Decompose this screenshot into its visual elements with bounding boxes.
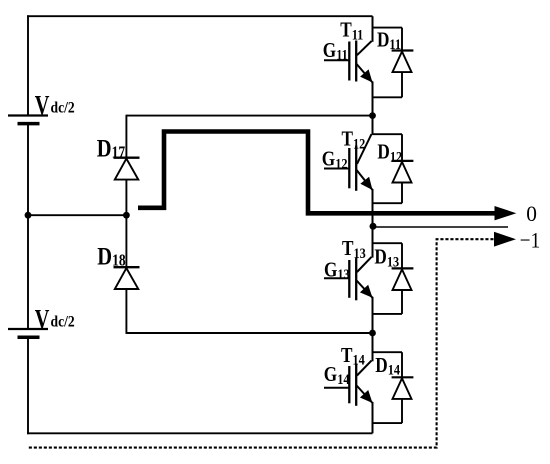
wire output phase line bbox=[373, 226, 508, 228]
label T11 bbox=[340, 19, 363, 43]
battery V1 negative plate bbox=[18, 122, 40, 126]
label D17 bbox=[97, 135, 126, 162]
svg-text:−1: −1 bbox=[520, 227, 540, 253]
svg-text:G13: G13 bbox=[324, 259, 350, 283]
wire left rail lower bbox=[27, 337, 29, 434]
svg-text:dc/2: dc/2 bbox=[51, 314, 75, 331]
wire bottom rail (-Vdc bus) bbox=[27, 432, 373, 434]
diode D11 bbox=[393, 52, 412, 73]
junction node output 0 bbox=[370, 223, 377, 230]
IGBT T11 emitter bbox=[357, 64, 373, 116]
wire neutral rail bbox=[28, 214, 126, 216]
label D14 bbox=[375, 354, 400, 378]
wire D17 cathode to node A bbox=[125, 115, 127, 158]
IGBT T12 gate bar bbox=[348, 148, 350, 188]
wire D18 anode down bbox=[125, 289, 127, 334]
svg-text:D14: D14 bbox=[375, 354, 400, 378]
svg-text:D13: D13 bbox=[374, 246, 399, 270]
diode D13 cathode bar bbox=[392, 267, 414, 269]
diode D12 cathode bar bbox=[392, 160, 414, 162]
output 0 arrowhead bbox=[495, 206, 517, 220]
wire node B horizontal bbox=[126, 332, 372, 334]
IGBT T13 body bar bbox=[355, 258, 357, 301]
junction node T13-T14 midpoint bbox=[369, 330, 376, 337]
diode D17 bbox=[115, 159, 139, 180]
label 0 bbox=[526, 200, 537, 226]
gate G14 lead bbox=[324, 387, 349, 389]
diode D17 cathode bar bbox=[114, 156, 140, 158]
label -1 bbox=[520, 227, 540, 253]
svg-text:T14: T14 bbox=[341, 344, 365, 368]
diode D11 top wire bbox=[373, 28, 403, 51]
diode D13 top wire bbox=[373, 243, 403, 269]
svg-text:G12: G12 bbox=[322, 148, 348, 172]
diode D11 cathode bar bbox=[392, 49, 414, 51]
IGBT T11 gate bar bbox=[348, 42, 350, 81]
label Vdc/2 lower bbox=[35, 305, 75, 334]
label Vdc/2 upper bbox=[35, 91, 75, 120]
svg-text:V: V bbox=[35, 305, 50, 334]
diode D13 bbox=[393, 269, 412, 290]
wire left rail between V1 and neutral bbox=[27, 124, 29, 216]
diode D18 bbox=[115, 268, 139, 289]
waveform 0-level trace (thick) bbox=[138, 132, 498, 214]
svg-text:D11: D11 bbox=[377, 29, 401, 53]
IGBT T14 gate bar bbox=[348, 366, 350, 403]
diode D12 bbox=[393, 162, 412, 183]
gate G13 lead bbox=[324, 277, 349, 279]
wire D17 anode to neutral bbox=[125, 180, 127, 216]
svg-text:0: 0 bbox=[526, 200, 537, 226]
junction node neutral-clamp bbox=[123, 212, 130, 219]
diode D18 cathode bar bbox=[114, 266, 140, 268]
label G12 bbox=[322, 148, 348, 172]
diode D11 return wire bbox=[373, 72, 403, 97]
IGBT T14 body bar bbox=[355, 364, 357, 406]
waveform -1 trace (dashed) bbox=[28, 239, 494, 447]
svg-text:V: V bbox=[35, 91, 50, 120]
wire top rail (+Vdc bus) bbox=[27, 15, 373, 17]
diode D14 return wire bbox=[373, 399, 403, 423]
wire D18 cathode to neutral bbox=[125, 215, 127, 267]
IGBT T12 collector bbox=[357, 116, 373, 164]
svg-text:G11: G11 bbox=[323, 39, 348, 63]
svg-text:T13: T13 bbox=[342, 238, 366, 262]
diode D14 bbox=[393, 378, 412, 399]
diode D14 top wire bbox=[373, 352, 403, 378]
junction node neutral-left bbox=[25, 212, 32, 219]
gate G12 lead bbox=[324, 168, 349, 170]
label D12 bbox=[377, 141, 402, 165]
diode D12 top wire bbox=[373, 134, 403, 161]
IGBT T14 emitter bbox=[357, 386, 373, 434]
wire left rail upper bbox=[27, 15, 29, 115]
wire left rail between neutral and V2 bbox=[27, 215, 29, 329]
battery V2 negative plate bbox=[18, 335, 40, 339]
label T13 bbox=[342, 238, 366, 262]
svg-text:T12: T12 bbox=[342, 128, 366, 152]
battery V2 positive plate bbox=[8, 328, 48, 330]
label D13 bbox=[374, 246, 399, 270]
IGBT T14 collector bbox=[357, 333, 373, 376]
svg-text:dc/2: dc/2 bbox=[51, 100, 75, 117]
-1 arrowhead bbox=[494, 232, 516, 247]
svg-text:D17: D17 bbox=[97, 135, 126, 162]
label D18 bbox=[97, 243, 126, 270]
label G11 bbox=[323, 39, 348, 63]
label T14 bbox=[341, 344, 365, 368]
label G13 bbox=[324, 259, 350, 283]
IGBT T12 emitter bbox=[357, 170, 373, 226]
IGBT T12 body bar bbox=[355, 146, 357, 191]
IGBT T11 body bar bbox=[355, 41, 357, 82]
junction node T11-T12 midpoint bbox=[369, 112, 376, 119]
diode D13 return wire bbox=[373, 290, 403, 314]
svg-text:T11: T11 bbox=[340, 19, 363, 43]
label T12 bbox=[342, 128, 366, 152]
svg-text:D18: D18 bbox=[97, 243, 126, 270]
label D11 bbox=[377, 29, 401, 53]
label G14 bbox=[324, 364, 350, 388]
battery V1 positive plate bbox=[8, 114, 48, 116]
IGBT T13 emitter bbox=[357, 281, 373, 334]
diode D14 cathode bar bbox=[392, 376, 414, 378]
diode D12 return wire bbox=[373, 183, 403, 204]
IGBT T11 collector bbox=[357, 16, 373, 55]
gate G11 lead bbox=[324, 59, 349, 61]
wire node A horizontal bbox=[126, 115, 372, 117]
IGBT T13 collector bbox=[357, 226, 373, 272]
svg-text:D12: D12 bbox=[377, 141, 402, 165]
IGBT T13 gate bar bbox=[348, 260, 350, 298]
